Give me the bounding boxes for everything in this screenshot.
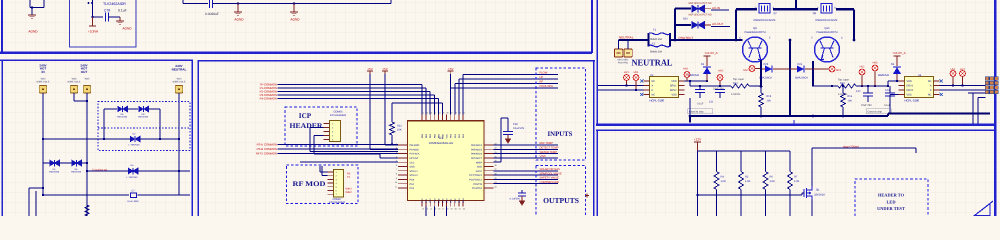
MCU right pin bbox=[484, 166, 494, 168]
fuse block F1/F2 bbox=[648, 33, 650, 47]
svg-text:+14.2V_A: +14.2V_A bbox=[704, 51, 717, 55]
wire bbox=[618, 40, 620, 49]
U3 pin bbox=[644, 80, 650, 82]
MCU right pin bbox=[484, 183, 494, 185]
connector pin bbox=[324, 123, 330, 125]
svg-text:SKP130CALPCT-ND: SKP130CALPCT-ND bbox=[688, 2, 712, 5]
svg-text:D25: D25 bbox=[764, 63, 769, 66]
wire bbox=[507, 118, 509, 131]
svg-text:Q10: Q10 bbox=[825, 27, 830, 30]
center rail bbox=[789, 40, 791, 116]
svg-text:C30: C30 bbox=[513, 123, 518, 126]
svg-text:SPA/POOL VALVE: SPA/POOL VALVE bbox=[540, 172, 563, 175]
wire bbox=[294, 3, 391, 5]
wire bbox=[385, 144, 398, 146]
MCU right pin bbox=[484, 178, 494, 180]
svg-text:AGND: AGND bbox=[290, 18, 300, 22]
MOV D2 bbox=[130, 136, 140, 142]
svg-text:VDD: VDD bbox=[907, 80, 912, 83]
svg-text:Close to chip: Close to chip bbox=[689, 111, 704, 114]
svg-text:WATER TEMP: WATER TEMP bbox=[540, 151, 558, 154]
MCU top pin bbox=[462, 115, 464, 121]
MCU bottom pin bbox=[425, 201, 427, 207]
svg-text:PC6/TOSC1: PC6/TOSC1 bbox=[469, 179, 482, 182]
capacitor C11 0.1uF bbox=[695, 89, 705, 91]
svg-text:AVCC: AVCC bbox=[476, 170, 483, 173]
wire bbox=[977, 98, 979, 125]
svg-text:22uF 25V: 22uF 25V bbox=[713, 88, 724, 91]
svg-text:WIRE HOLE: WIRE HOLE bbox=[68, 80, 81, 83]
MCU top pin bbox=[442, 115, 444, 121]
svg-text:C: C bbox=[841, 37, 843, 40]
svg-text:PA6/ADC6: PA6/ADC6 bbox=[471, 153, 483, 156]
wire bbox=[887, 81, 889, 86]
wire bbox=[278, 91, 431, 93]
MOV D6 bbox=[128, 168, 138, 175]
wire bbox=[856, 85, 888, 87]
sheet C border (240V input sheet) bbox=[0, 60, 193, 216]
svg-text:28: 28 bbox=[495, 164, 497, 167]
svg-text:43: 43 bbox=[426, 112, 428, 115]
MCU top pin bbox=[425, 115, 427, 121]
svg-text:HV1: HV1 bbox=[624, 71, 629, 74]
svg-text:STALL2: STALL2 bbox=[410, 174, 419, 177]
svg-text:AREF: AREF bbox=[476, 161, 483, 164]
svg-text:GND: GND bbox=[477, 166, 482, 169]
MOSFET Q1 2SK3018 bbox=[804, 187, 812, 200]
svg-text:5: 5 bbox=[396, 160, 397, 163]
U3 pin bbox=[644, 94, 650, 96]
label Close to chip right bbox=[866, 109, 891, 114]
svg-text:1X5 HEADER: 1X5 HEADER bbox=[330, 114, 346, 117]
wire input UF bbox=[458, 79, 460, 115]
svg-text:0.1uF50V: 0.1uF50V bbox=[510, 198, 521, 201]
svg-text:1.0K: 1.0K bbox=[770, 180, 776, 183]
MCU right pin bbox=[484, 170, 494, 172]
svg-text:3: 3 bbox=[396, 151, 397, 154]
MCU bottom pin bbox=[458, 201, 460, 207]
wire bbox=[74, 100, 87, 102]
svg-text:22: 22 bbox=[463, 208, 465, 211]
svg-text:GND: GND bbox=[442, 134, 445, 139]
MCU bottom pin bbox=[450, 201, 452, 207]
svg-text:D: D bbox=[755, 6, 757, 9]
U4 pin bbox=[899, 80, 905, 82]
svg-text:R15: R15 bbox=[767, 95, 772, 98]
wire bbox=[43, 138, 130, 140]
INPUTS dashed box bbox=[536, 68, 586, 160]
wire bundle to MCU bbox=[310, 151, 398, 153]
RF MOD dashed box bbox=[287, 165, 359, 204]
capacitor C9 22uF 25V bbox=[715, 89, 725, 91]
svg-text:20: 20 bbox=[455, 208, 457, 211]
svg-text:RF: RF bbox=[540, 81, 544, 84]
ground AGND bbox=[28, 15, 36, 19]
svg-text:PG2: PG2 bbox=[410, 187, 415, 190]
svg-text:40: 40 bbox=[438, 112, 440, 115]
op-amp section box bbox=[70, 0, 137, 47]
svg-text:REF TEMP: REF TEMP bbox=[540, 142, 554, 145]
MCU top pin bbox=[446, 115, 448, 121]
svg-text:SAFETY VALVE: SAFETY VALVE bbox=[540, 177, 560, 180]
U3 pin bbox=[644, 85, 650, 87]
svg-text:C12: C12 bbox=[856, 90, 861, 93]
wire bbox=[598, 85, 644, 87]
svg-text:COMPRESSOR: COMPRESSOR bbox=[540, 181, 559, 184]
MCU bottom pin bbox=[446, 201, 448, 207]
wire output COMPRESSOR bbox=[494, 183, 559, 185]
resistor R2 1.0K bbox=[740, 151, 742, 172]
wire bbox=[82, 162, 88, 164]
svg-text:+5V: +5V bbox=[367, 67, 372, 71]
wire bbox=[278, 87, 427, 89]
wire bbox=[86, 93, 88, 101]
svg-text:Top Layer: Top Layer bbox=[733, 78, 744, 81]
resistor R16 10K bbox=[842, 86, 844, 93]
svg-text:22uF 25V: 22uF 25V bbox=[861, 104, 872, 107]
svg-text:23: 23 bbox=[495, 185, 497, 188]
capacitor 0.0036uF bbox=[208, 0, 210, 8]
connector pin bbox=[324, 131, 330, 133]
thick top rail bbox=[736, 8, 757, 10]
svg-text:17: 17 bbox=[442, 208, 444, 211]
wire with junction bbox=[238, 3, 294, 5]
svg-text:PAD PAD: PAD PAD bbox=[618, 61, 628, 64]
wire bbox=[149, 108, 160, 110]
svg-text:1.0K: 1.0K bbox=[721, 180, 727, 183]
svg-text:0.1uF: 0.1uF bbox=[884, 104, 891, 107]
wire bbox=[915, 148, 917, 153]
svg-text:TMOV34S: TMOV34S bbox=[49, 171, 60, 174]
plus mark bbox=[585, 194, 589, 198]
wire bbox=[314, 135, 324, 137]
svg-text:W05: W05 bbox=[85, 78, 90, 81]
svg-text:1: 1 bbox=[396, 142, 397, 145]
svg-text:MBR0540: MBR0540 bbox=[878, 74, 890, 77]
svg-text:PA4/ADC4: PA4/ADC4 bbox=[471, 144, 483, 147]
wire bbox=[812, 147, 916, 149]
svg-text:1.0K: 1.0K bbox=[745, 180, 751, 183]
svg-text:SKP130CALPCT-ND: SKP130CALPCT-ND bbox=[688, 14, 712, 17]
svg-text:HEADER: HEADER bbox=[290, 122, 324, 130]
thick wire PROTECT bbox=[670, 39, 743, 41]
svg-text:L-TMOV40: L-TMOV40 bbox=[129, 144, 140, 147]
svg-text:D: D bbox=[835, 6, 837, 9]
svg-text:D26: D26 bbox=[798, 63, 803, 66]
wire bbox=[278, 148, 399, 150]
thick bus bbox=[689, 115, 888, 117]
wire source bbox=[811, 200, 813, 217]
svg-text:OUT: OUT bbox=[81, 70, 88, 74]
svg-text:RX: RX bbox=[347, 173, 351, 176]
MCU right pin bbox=[484, 148, 494, 150]
svg-text:PC7/TOSC2: PC7/TOSC2 bbox=[469, 174, 482, 177]
wire bbox=[43, 0, 45, 8]
connector pin bbox=[324, 127, 330, 129]
svg-text:NC: NC bbox=[928, 80, 932, 83]
svg-text:L-TMOV40: L-TMOV40 bbox=[127, 176, 138, 179]
wire VSS drop bbox=[890, 94, 899, 96]
MOSFET Q7 IPW60R041CADZK bbox=[759, 4, 770, 13]
svg-text:16: 16 bbox=[438, 208, 440, 211]
connector pin bbox=[324, 139, 330, 141]
MOV D5 bbox=[72, 160, 82, 167]
wire bbox=[138, 170, 190, 172]
wire drain bbox=[811, 148, 813, 187]
capacitor C78 bbox=[105, 13, 107, 22]
rail riser up bbox=[795, 0, 797, 9]
MCU left pin bbox=[398, 178, 408, 180]
svg-text:WIN2: WIN2 bbox=[346, 191, 353, 194]
wire bbox=[29, 0, 31, 8]
wire bbox=[391, 135, 393, 144]
MCU bottom pin bbox=[429, 201, 431, 207]
U4 pin bbox=[899, 85, 905, 87]
resistor R7 1.0K bbox=[789, 151, 791, 172]
MCU left pin bbox=[398, 183, 408, 185]
connector pads right edge bbox=[985, 77, 989, 81]
ground AGND bbox=[237, 4, 239, 13]
svg-text:R7: R7 bbox=[794, 176, 798, 179]
svg-text:DRV2: DRV2 bbox=[907, 89, 914, 92]
svg-text:1.0K: 1.0K bbox=[794, 180, 800, 183]
svg-text:+3.3VA: +3.3VA bbox=[88, 30, 99, 34]
svg-text:19: 19 bbox=[450, 208, 452, 211]
svg-text:AGND: AGND bbox=[28, 30, 38, 34]
svg-text:10K: 10K bbox=[397, 129, 402, 132]
resistor R6 1.0K bbox=[765, 151, 767, 172]
svg-text:4.04/1%: 4.04/1% bbox=[731, 93, 741, 96]
wire bbox=[93, 16, 104, 18]
svg-text:NEUTRAL: NEUTRAL bbox=[632, 58, 673, 68]
wire bbox=[619, 39, 649, 41]
wire bbox=[178, 93, 180, 195]
wire bbox=[28, 188, 30, 216]
MOV D8 bbox=[118, 106, 128, 112]
svg-text:7: 7 bbox=[396, 168, 397, 171]
HEADER TO LED UNDER TEST dashed box bbox=[855, 179, 928, 217]
svg-text:NC: NC bbox=[928, 94, 932, 97]
wire bbox=[278, 98, 439, 100]
svg-text:10K: 10K bbox=[848, 100, 853, 103]
svg-text:12: 12 bbox=[422, 208, 424, 211]
svg-text:DETECT TEMP: DETECT TEMP bbox=[540, 147, 559, 150]
svg-text:C10: C10 bbox=[885, 89, 890, 92]
wire A bbox=[940, 85, 986, 87]
wire input POOL/SPA bbox=[450, 88, 452, 115]
rail bbox=[698, 150, 791, 152]
wire bbox=[842, 107, 844, 116]
wire output SPA/POOL VALVE bbox=[494, 174, 559, 176]
wire bbox=[749, 85, 761, 87]
svg-text:FLOW: FLOW bbox=[540, 72, 548, 75]
resistor R15 10K bbox=[760, 87, 762, 94]
svg-text:HV3: HV3 bbox=[873, 62, 878, 65]
svg-text:HCPL-3180: HCPL-3180 bbox=[905, 99, 920, 103]
microcontroller U1 ATMEGA164A-AU bbox=[408, 121, 485, 201]
wire bbox=[690, 85, 731, 87]
svg-text:PC5/TDI: PC5/TDI bbox=[473, 183, 482, 186]
wire bbox=[278, 84, 423, 86]
svg-text:6: 6 bbox=[396, 164, 397, 167]
wire bbox=[442, 103, 444, 115]
MOSFET Q8 IPW60R041CADZK bbox=[821, 4, 832, 13]
connector pin bbox=[328, 186, 334, 188]
svg-text:10: 10 bbox=[395, 181, 397, 184]
wire bbox=[159, 109, 161, 139]
svg-text:WIRE HOLE: WIRE HOLE bbox=[37, 80, 50, 83]
wire bbox=[421, 85, 423, 115]
MCU bottom pin bbox=[462, 201, 464, 207]
MCU left pin bbox=[398, 161, 408, 163]
wire K bbox=[940, 89, 986, 91]
rail riser bbox=[735, 9, 737, 40]
MCU left pin bbox=[398, 157, 408, 159]
svg-text:TMOV34S: TMOV34S bbox=[71, 171, 82, 174]
wire bbox=[138, 194, 191, 196]
svg-text:VCC: VCC bbox=[442, 198, 445, 203]
svg-text:42: 42 bbox=[430, 112, 432, 115]
svg-text:NEUTRAL: NEUTRAL bbox=[619, 36, 634, 40]
svg-text:+5V: +5V bbox=[382, 67, 387, 71]
svg-text:Q9: Q9 bbox=[753, 27, 757, 30]
wire bbox=[433, 95, 435, 115]
svg-text:PC4/TDO: PC4/TDO bbox=[472, 187, 482, 190]
bus stub bbox=[689, 116, 691, 123]
svg-text:TLV2462AIDR: TLV2462AIDR bbox=[103, 2, 126, 6]
svg-text:UNDER TEST: UNDER TEST bbox=[877, 206, 905, 211]
svg-text:PHY-SCK: PHY-SCK bbox=[410, 153, 420, 156]
svg-text:VIN6: VIN6 bbox=[540, 155, 546, 158]
emitter rail bbox=[760, 60, 762, 87]
U4 pin bbox=[899, 94, 905, 96]
MOV D4 bbox=[50, 160, 60, 167]
svg-text:D20: D20 bbox=[683, 18, 688, 21]
svg-text:MV2: MV2 bbox=[718, 69, 724, 72]
pad MH1 bbox=[614, 49, 622, 57]
svg-text:HV2: HV2 bbox=[860, 66, 865, 69]
svg-text:R6: R6 bbox=[770, 176, 774, 179]
svg-text:PS-B COMMON: PS-B COMMON bbox=[257, 147, 277, 151]
svg-text:PA7/ADC7: PA7/ADC7 bbox=[471, 157, 483, 160]
svg-text:WIN1: WIN1 bbox=[346, 188, 353, 191]
wire output SOLAR OR GAS bbox=[494, 170, 559, 172]
svg-text:5MM4 30A: 5MM4 30A bbox=[650, 38, 662, 41]
sheet B border (power driver sheet) bbox=[596, 0, 996, 216]
wire input RF bbox=[454, 84, 456, 115]
svg-text:DRV1: DRV1 bbox=[907, 85, 914, 88]
svg-text:R2: R2 bbox=[745, 176, 749, 179]
wire bbox=[310, 127, 324, 129]
svg-text:FGH60N60UFDTU: FGH60N60UFDTU bbox=[744, 31, 765, 34]
svg-text:PS-MOD: PS-MOD bbox=[410, 148, 420, 151]
wire bbox=[392, 102, 443, 104]
wire WATER TEMP bbox=[494, 153, 559, 155]
svg-text:POOL/SPA: POOL/SPA bbox=[540, 85, 554, 88]
resistor R4 1.0K bbox=[716, 151, 718, 172]
svg-text:HCPL-3180: HCPL-3180 bbox=[650, 99, 665, 103]
svg-text:14: 14 bbox=[430, 208, 432, 211]
TVS diode AC-IN bbox=[675, 7, 691, 9]
svg-text:R16: R16 bbox=[848, 95, 853, 98]
svg-text:IPW60R041CADZK: IPW60R041CADZK bbox=[754, 19, 776, 22]
wire bbox=[429, 92, 431, 115]
MCU top pin bbox=[429, 115, 431, 121]
svg-text:PG0: PG0 bbox=[410, 179, 415, 182]
svg-text:MV2: MV2 bbox=[743, 69, 749, 72]
connector pin bbox=[324, 135, 330, 137]
wire bbox=[598, 89, 644, 91]
wire bbox=[391, 103, 393, 122]
wire bbox=[689, 81, 691, 86]
svg-text:HV1: HV1 bbox=[634, 71, 639, 74]
wire bbox=[446, 207, 448, 216]
svg-text:W03: W03 bbox=[177, 78, 182, 81]
wire bbox=[370, 148, 398, 150]
svg-text:C: C bbox=[739, 37, 741, 40]
wire VDD right bbox=[888, 80, 899, 82]
svg-text:FGH60N60UFDTU: FGH60N60UFDTU bbox=[816, 31, 837, 34]
svg-text:R12: R12 bbox=[397, 125, 402, 128]
svg-text:Imax=700mA: Imax=700mA bbox=[843, 145, 859, 148]
wire bbox=[213, 3, 238, 5]
ground AGND bbox=[119, 17, 121, 21]
wire bbox=[390, 0, 392, 4]
MCU top pin bbox=[421, 115, 423, 121]
svg-text:9: 9 bbox=[396, 177, 397, 180]
svg-text:HEADER TO: HEADER TO bbox=[878, 193, 905, 198]
svg-text:VCC: VCC bbox=[410, 161, 415, 164]
svg-text:TX: TX bbox=[347, 176, 351, 179]
wire bbox=[109, 16, 121, 18]
emitter rail bbox=[812, 61, 814, 87]
label Close to chip bbox=[688, 109, 713, 114]
U4 pin bbox=[899, 89, 905, 91]
wire bbox=[87, 170, 128, 172]
wire bbox=[182, 0, 184, 4]
MCU right pin bbox=[484, 161, 494, 163]
pad MH2 bbox=[624, 49, 632, 57]
svg-text:NC: NC bbox=[652, 94, 656, 97]
wire bbox=[425, 207, 427, 216]
MCU right pin bbox=[484, 187, 494, 189]
MCU right pin bbox=[484, 153, 494, 155]
wire bbox=[437, 99, 439, 115]
wire bbox=[322, 175, 328, 177]
svg-text:AGND: AGND bbox=[122, 27, 132, 31]
wire bbox=[433, 207, 435, 216]
thick wire riser bbox=[674, 9, 676, 41]
MCU right pin bbox=[484, 144, 494, 146]
wire bbox=[42, 163, 44, 195]
svg-text:P4-COMMON: P4-COMMON bbox=[260, 97, 277, 101]
wire bbox=[711, 9, 729, 11]
svg-text:VSS: VSS bbox=[671, 94, 676, 97]
MCU left pin bbox=[398, 153, 408, 155]
wire gate bbox=[698, 194, 803, 196]
wire bbox=[369, 74, 371, 149]
svg-text:IPW60R041CADZK: IPW60R041CADZK bbox=[816, 19, 838, 22]
wire bbox=[30, 7, 44, 9]
svg-text:11: 11 bbox=[395, 185, 397, 188]
svg-text:2SK3018: 2SK3018 bbox=[814, 194, 825, 197]
wire bbox=[711, 26, 730, 28]
U3 pin bbox=[644, 89, 650, 91]
connector pin bbox=[328, 178, 334, 180]
connector pin bbox=[328, 182, 334, 184]
MCU bottom pin bbox=[433, 201, 435, 207]
sheet E border (LED test sheet) bbox=[596, 130, 996, 217]
